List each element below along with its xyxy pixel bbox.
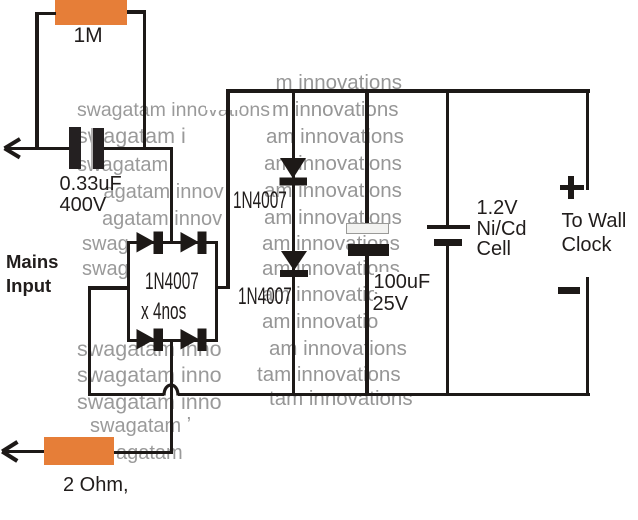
watermark row 11 left — [77, 339, 222, 361]
watermark row 3 right — [266, 127, 404, 148]
watermark row 4 right — [264, 154, 402, 175]
wire bridge left output vertical down — [88, 286, 91, 396]
capacitor C2 100uF minus plate — [348, 244, 390, 256]
output plus symbol horizontal bar — [560, 185, 585, 190]
battery cell short plate — [434, 239, 463, 246]
label 400V — [60, 195, 107, 215]
output plus symbol vertical bar — [568, 176, 574, 199]
bridge rectifier box — [127, 241, 219, 342]
diode D2 bridge top-right — [181, 232, 207, 255]
wire cap to bridge vertical — [170, 147, 173, 242]
output minus symbol — [558, 287, 580, 294]
wire 100uF top vertical — [365, 89, 369, 223]
wire 1M left drop — [35, 12, 39, 150]
wire bottom rail left segment — [88, 393, 164, 396]
watermark row 12 right — [257, 365, 401, 386]
wire to 2 ohm horizontal — [114, 451, 173, 454]
watermark row 5 left — [104, 182, 224, 202]
wire 2 ohm to arrow — [3, 450, 44, 453]
watermark row 7 right — [262, 234, 400, 255]
capacitor C2 100uF plus plate — [346, 223, 389, 233]
resistor R1 1M body — [55, 0, 127, 25]
wire bridge right output vertical up — [226, 89, 230, 289]
label Mains Input — [6, 250, 58, 299]
watermark row 8 left — [82, 259, 129, 279]
label 0.33uF — [60, 174, 122, 194]
watermark row 6 left — [102, 209, 222, 229]
watermark row 8 right — [262, 259, 400, 280]
wire cell top vertical — [446, 89, 450, 225]
wire 1M right stub — [127, 10, 146, 13]
label 2 Ohm, — [63, 475, 129, 495]
watermark row 14 left — [90, 416, 191, 436]
wire top rail — [226, 89, 590, 93]
label 100uF — [374, 272, 431, 292]
wire bridge right output horizontal — [215, 286, 230, 289]
watermark row 10 right — [262, 312, 378, 333]
watermark row 12 left — [77, 365, 222, 387]
watermark row 7 left — [82, 234, 129, 254]
bridge label 1N4007 — [145, 270, 199, 294]
resistor R2 2 Ohm body — [44, 437, 114, 465]
label 1.2V Ni/Cd Cell — [477, 198, 527, 260]
wire series diode branch vertical — [292, 89, 296, 395]
wire output plus vertical — [586, 89, 590, 190]
battery cell long plate — [427, 225, 470, 229]
label 25V — [373, 294, 409, 314]
watermark row 3 left — [77, 126, 186, 148]
diode D6 1N4007 — [281, 251, 307, 271]
white patch over watermark row 2 — [206, 96, 240, 110]
diode D3 bridge bottom-left — [137, 329, 164, 352]
wire 100uF bottom vertical — [365, 256, 369, 395]
label D6 1N4007 — [238, 285, 292, 309]
watermark row 1 — [276, 73, 402, 94]
wire bridge bottom to mains vertical — [170, 341, 173, 454]
capacitor C1 0.33uF plate left — [69, 127, 81, 169]
watermark row 13 left — [77, 392, 222, 414]
watermark row 4 left — [77, 155, 168, 175]
watermark row 5 right — [264, 181, 402, 202]
wire cell bottom vertical — [446, 246, 450, 395]
label D5 1N4007 — [233, 189, 287, 213]
wire output minus vertical — [586, 277, 590, 396]
watermark row 13 right — [269, 389, 413, 410]
diode D4 bridge bottom-right — [181, 329, 207, 352]
wire bridge left output horizontal — [88, 286, 128, 289]
resistor R1 label 1M — [74, 25, 103, 46]
wire bottom rail right segment — [178, 393, 590, 396]
watermark row 2 right — [272, 100, 398, 121]
watermark row 15 left — [116, 443, 183, 463]
wire 1M left stub — [35, 12, 56, 15]
bridge label x 4nos — [141, 300, 186, 324]
label To Wall Clock — [562, 209, 627, 257]
watermark row 11 right — [269, 339, 407, 360]
watermark row 6 right — [264, 208, 402, 229]
watermark row 2 left — [77, 101, 270, 121]
wire mains top horizontal left of cap — [5, 147, 70, 150]
diode D1 bridge top-left — [137, 232, 164, 255]
capacitor C1 0.33uF plate right — [91, 128, 105, 170]
wire 1M right drop — [143, 10, 146, 149]
wire mains top horizontal right of cap — [103, 147, 173, 150]
watermark row 9 right — [262, 285, 378, 306]
